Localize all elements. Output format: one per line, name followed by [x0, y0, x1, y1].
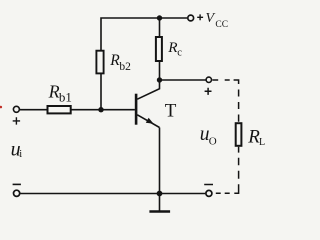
label Rc — [167, 39, 182, 58]
label plus output — [205, 88, 212, 95]
label minus input — [13, 183, 21, 185]
svg-text:c: c — [177, 47, 182, 58]
terminal output plus — [206, 77, 211, 82]
junction base node — [98, 107, 103, 112]
terminal input minus — [14, 190, 20, 196]
wire base — [71, 109, 135, 111]
label plus input — [13, 117, 20, 124]
wire Rb2 to base node — [100, 74, 102, 110]
terminal +Vcc — [188, 15, 194, 21]
label Rb2 — [109, 52, 131, 73]
terminal output minus — [206, 190, 212, 196]
wire input to Rb1 — [20, 109, 48, 111]
wire dashed output bottom — [216, 147, 239, 194]
svg-text:CC: CC — [215, 20, 228, 30]
resistor Rc — [156, 37, 162, 61]
label minus output — [204, 184, 213, 186]
label uo — [200, 124, 217, 147]
red mark — [0, 106, 2, 109]
svg-text:i: i — [19, 149, 22, 160]
label +Vcc — [197, 11, 228, 30]
wire bottom rail — [20, 193, 205, 195]
junction collector node — [157, 77, 162, 82]
resistor Rb2 — [96, 51, 103, 74]
wire dashed output top — [212, 80, 238, 122]
svg-text:O: O — [209, 136, 217, 148]
wire collector to output — [160, 79, 207, 81]
wire Rc to collector — [159, 62, 161, 80]
svg-text:L: L — [259, 137, 265, 148]
svg-text:V: V — [206, 11, 216, 26]
ground — [149, 194, 170, 212]
svg-text:T: T — [165, 101, 177, 122]
transistor T — [136, 80, 159, 127]
wire Rc top — [159, 18, 161, 36]
svg-text:b2: b2 — [119, 61, 131, 73]
label ui — [11, 139, 23, 161]
wire emitter — [159, 128, 161, 194]
label Rb1 — [48, 82, 72, 105]
label RL — [247, 126, 265, 148]
resistor Rb1 — [48, 106, 71, 113]
svg-text:b1: b1 — [59, 89, 72, 104]
svg-text:R: R — [48, 82, 60, 102]
wire top rail — [101, 18, 187, 50]
junction emitter ground node — [157, 191, 163, 197]
terminal input plus — [13, 106, 19, 112]
junction top node — [157, 15, 162, 20]
resistor RL — [236, 123, 242, 146]
